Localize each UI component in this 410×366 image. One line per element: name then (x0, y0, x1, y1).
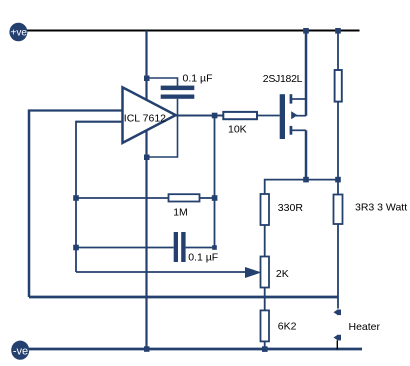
transistor Q1 2SJ182L (280, 94, 306, 139)
svg-text:Heater: Heater (349, 321, 381, 333)
heater terminal arrow top (334, 309, 342, 315)
svg-text:ICL 7612: ICL 7612 (124, 112, 166, 124)
resistor R2 10K (223, 112, 257, 119)
junction: V- line / C1 bottom (144, 155, 150, 161)
wire: drain node horizontal (265, 180, 338, 225)
label C1 value 0.1 µF (183, 72, 213, 84)
wire: Q1 source/body to +ve rail (305, 31, 308, 116)
resistor R5 6K2 (261, 310, 270, 341)
svg-text:0.1 µF: 0.1 µF (183, 72, 213, 84)
label R2 value 10K (228, 123, 247, 135)
top +ve supply rail wire (27, 30, 360, 32)
svg-text:6K2: 6K2 (278, 320, 297, 332)
heater terminal arrow bottom (334, 335, 342, 341)
resistor R3 1M (169, 194, 200, 201)
svg-text:-ve: -ve (13, 345, 28, 357)
svg-text:3R3 3 Watt: 3R3 3 Watt (355, 202, 407, 214)
capacitor C2 0.1 uF (174, 232, 186, 262)
junction: output node (212, 113, 218, 119)
label R3 value 1M (173, 207, 188, 219)
resistor VR1 2K preset (261, 257, 270, 288)
wire: Q1 drain down to output node wire (305, 130, 308, 179)
wire: C1 bottom plate down to V- pin wire (147, 99, 178, 157)
svg-text:+ve: +ve (10, 28, 27, 39)
label R5 value 6K2 (278, 320, 297, 332)
wire: branch from V+ to C1 top plate (147, 78, 178, 86)
junction: feedback line / 1M wire (73, 195, 79, 201)
wire: 10K to gate of Q1 (257, 115, 280, 117)
junction: V+ line / C1 branch (144, 76, 150, 82)
label U1 ICL 7612 (124, 112, 166, 124)
wire: op-amp output to 10K (176, 115, 224, 117)
wire: 1M left lead (76, 197, 169, 199)
wire: 3R3 branch from +ve rail down to heater terminal (337, 31, 339, 309)
-ve terminal (11, 341, 29, 360)
wire: V+ supply drop from rail to op-amp top edge (145, 31, 147, 102)
wire: C2 right lead (186, 247, 215, 249)
end tick: output line at C2 wire (212, 245, 217, 250)
svg-text:330R: 330R (278, 202, 304, 214)
bottom -ve supply rail wire (29, 348, 362, 351)
wire: divider chain down to -ve rail (264, 220, 266, 349)
junction: V- line at -ve rail (144, 346, 150, 352)
resistor R6 3R3 3 Watt (334, 195, 343, 225)
wire: C2 left lead (76, 247, 174, 249)
junction: drain line / horizontal wire (303, 177, 309, 183)
svg-text:1M: 1M (173, 207, 188, 219)
junction: horizontal wire / 3R3 line (335, 177, 341, 183)
wire: non-inverting input from sense line (28, 109, 122, 111)
junction: source line at +ve rail (303, 28, 309, 34)
svg-text:2SJ182L: 2SJ182L (263, 73, 303, 85)
+ve terminal (9, 23, 27, 42)
resistor R7 unlabelled upper right (335, 70, 342, 102)
wire: left sense line down (28, 110, 31, 298)
label Q1 2SJ182L (263, 73, 303, 85)
wire: sense wire to heater node (29, 296, 338, 299)
wire: V- supply from op-amp bottom edge to -ve rail (145, 130, 147, 350)
label Heater (349, 321, 381, 333)
svg-text:2K: 2K (276, 268, 289, 280)
label C2 value 0.1 µF (188, 251, 218, 263)
wire: feedback node line down (75, 121, 77, 272)
label R6 value 3R3 3 Watt (355, 202, 407, 214)
resistor R4 330R (261, 194, 270, 225)
capacitor C1 0.1 uF supply decoupling (161, 86, 195, 99)
wire: 1M right lead (200, 197, 215, 199)
svg-text:10K: 10K (228, 123, 247, 135)
label R4 value 330R (278, 202, 304, 214)
junction: divider at -ve rail (262, 346, 268, 352)
label VR1 value 2K (276, 268, 289, 280)
wiper arrow into 2K (245, 267, 262, 278)
wire: feedback to 2K wiper arrow (76, 271, 246, 273)
wire: inverting input (76, 121, 122, 123)
wire: heater stub to -ve rail (336, 340, 338, 349)
junction: feedback line / C2 wire (73, 245, 79, 251)
svg-text:0.1 µF: 0.1 µF (188, 251, 218, 263)
op-amp U1 ICL 7612 (123, 87, 176, 143)
junction: output line / 1M wire (212, 195, 218, 201)
junction: 3R3 line at +ve rail (335, 28, 341, 34)
wire: output node line down to C2 (214, 116, 216, 248)
